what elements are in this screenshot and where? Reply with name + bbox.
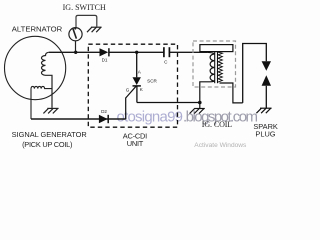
svg-text:IG. SWITCH: IG. SWITCH [63, 3, 106, 12]
svg-text:ALTERNATOR: ALTERNATOR [12, 25, 63, 34]
svg-text:D2: D2 [101, 109, 107, 114]
svg-text:SIGNAL GENERATOR: SIGNAL GENERATOR [12, 130, 87, 139]
svg-text:IG. COIL: IG. COIL [202, 120, 233, 129]
svg-text:UNIT: UNIT [127, 139, 144, 148]
svg-text:SCR: SCR [147, 79, 157, 84]
svg-text:G: G [126, 87, 130, 92]
svg-text:PLUG: PLUG [255, 130, 275, 139]
svg-text:otosigna99: otosigna99 [117, 109, 184, 126]
svg-text:D1: D1 [102, 58, 108, 63]
svg-text:(PICK UP COIL): (PICK UP COIL) [22, 140, 72, 149]
svg-text:Activate Windows: Activate Windows [194, 142, 247, 149]
